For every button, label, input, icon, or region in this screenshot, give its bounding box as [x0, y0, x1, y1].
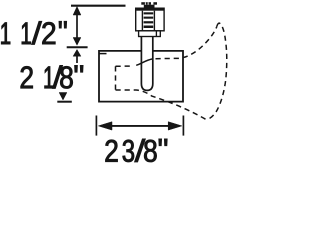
top reference line of 1 1/2 dimension	[71, 5, 126, 7]
lamp rim dashed outline	[206, 23, 227, 119]
horizontal dimension line 2 3/8 with arrows	[98, 122, 182, 130]
dimension text 2 1/8"	[21, 65, 83, 88]
fixture body box	[99, 51, 183, 102]
adapter collar	[139, 31, 161, 37]
right extension tick of 2 3/8 dimension	[182, 116, 184, 136]
hidden lamp bottom dashed line to rim	[116, 90, 206, 119]
tick below lower 2 1/8 arrow	[57, 101, 72, 103]
adapter contact bars	[144, 12, 154, 28]
vertical dimension line 1 1/2 with arrows	[73, 7, 81, 46]
track adapter knurled knob	[141, 2, 157, 8]
lower arrow of 2 1/8 dimension	[59, 93, 67, 101]
upper arrow of 2 1/8 dimension	[73, 50, 81, 64]
dash at body top-left corner	[100, 53, 107, 55]
dimension text 2 3/8"	[106, 139, 168, 162]
hidden lamp neck long dash crossing stem	[136, 59, 152, 65]
tick between 1 1/2 and 2 1/8 dimensions	[67, 46, 88, 48]
hidden lamp neck dashed top line left of stem	[116, 65, 134, 67]
dimension text 1 1/2"	[1, 21, 66, 44]
left extension tick of 2 3/8 dimension	[95, 116, 97, 136]
stem with U loop	[141, 37, 152, 91]
track adapter body	[136, 8, 164, 31]
hidden lamp holder dashed rectangle left side	[115, 66, 117, 90]
hidden lamp neck dashed top line curving to lamp rim	[156, 26, 217, 59]
